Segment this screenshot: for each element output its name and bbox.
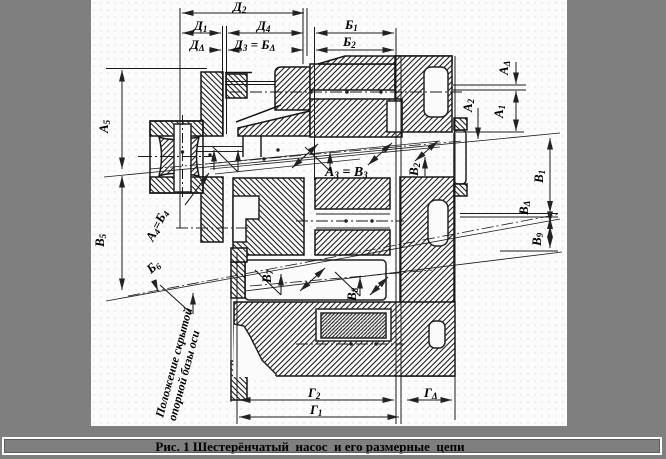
dot c [379, 90, 382, 93]
cap axis [138, 156, 213, 158]
gear hub in cavity [321, 313, 386, 338]
dot f [349, 342, 352, 345]
left edge bolt section upper [231, 248, 247, 262]
left edge bolt section lower [231, 361, 247, 400]
ext line x303 [302, 8, 304, 64]
oblique axis dashdot upper [150, 141, 462, 169]
ext line A1 bottom [456, 131, 524, 133]
dim Г2 [239, 399, 394, 401]
leader В2 [424, 157, 426, 176]
leader zigzag band1 a [212, 146, 238, 172]
shaft journal line b [191, 151, 243, 153]
svg-text:Г1: Г1 [309, 402, 322, 418]
svg-text:Положение скрытой опорной ба: Положение скрытой опорной базы оси [152, 303, 208, 423]
dot e [370, 219, 373, 222]
svg-text:Д1: Д1 [193, 18, 207, 34]
svg-text:Б1: Б1 [344, 17, 358, 33]
gear hub mass [275, 67, 310, 110]
band under upper shaft [310, 99, 402, 137]
gear bore line b [316, 227, 390, 229]
body ramp upper edge [236, 105, 281, 122]
leader А4 vertical [213, 150, 215, 170]
dim Б1 [316, 32, 394, 34]
svg-text:Д3 = БΔ: Д3 = БΔ [233, 37, 275, 53]
dim ДΔ right leader [228, 49, 240, 51]
lower gear upper half [315, 178, 390, 209]
shaft end cap [454, 130, 466, 184]
spherical washer [159, 137, 199, 176]
left bearing cap outline [150, 121, 203, 193]
svg-text:В2: В2 [406, 162, 422, 177]
stepped notch in cover [233, 196, 259, 242]
dim Г1 [239, 416, 399, 418]
dot h [181, 150, 184, 153]
bottom housing block [234, 302, 455, 376]
chain line band c [215, 159, 360, 174]
dim А1 [515, 91, 517, 131]
ext line gear face [314, 27, 316, 180]
body ramp hatch wedge [238, 111, 310, 136]
svg-text:В9: В9 [529, 232, 545, 247]
dim В5 [121, 176, 123, 290]
leader А4 diagonal [185, 173, 209, 205]
hub face edge right [260, 136, 262, 157]
chain line band b [210, 147, 440, 169]
svg-text:Д4: Д4 [256, 18, 271, 34]
svg-text:В5: В5 [92, 233, 108, 248]
ext line gear face right a [460, 213, 558, 215]
dim А5 [121, 70, 123, 169]
leader zigzag band1 e [415, 141, 438, 161]
dim АΔ leader [515, 62, 517, 84]
bearing plate [245, 260, 386, 300]
top hatched band [310, 64, 395, 90]
svg-text:В1: В1 [531, 170, 547, 184]
dim Б2 [316, 49, 394, 51]
dot d [344, 219, 347, 222]
ext line B9 bottom [500, 250, 558, 252]
dim Д4 [228, 32, 303, 34]
svg-text:А4=Б4: А4=Б4 [142, 206, 172, 244]
journal line a [225, 81, 275, 83]
dim ВΔ [549, 218, 551, 224]
svg-text:ДΔ: ДΔ [189, 37, 205, 53]
housing right edge [454, 56, 456, 420]
left bearing cap top band [150, 121, 203, 136]
ext line gear face right b [460, 216, 558, 218]
ext line x396 long [395, 28, 397, 424]
svg-text:А5: А5 [96, 119, 112, 134]
right wall upper block [395, 56, 452, 132]
svg-text:АΔ: АΔ [496, 61, 512, 76]
dot i [262, 157, 265, 160]
right wall lower block [400, 177, 454, 376]
lower gear lower half [315, 230, 390, 255]
leader zigzag band1 b [292, 144, 318, 168]
white drawing panel [91, 0, 567, 426]
bolt centerline [182, 115, 184, 200]
svg-text:А3 = В3: А3 = В3 [324, 165, 368, 180]
dim В9 [549, 226, 551, 248]
bolt shank slot [174, 124, 191, 192]
slot in band [387, 101, 402, 132]
ext line gap right [226, 26, 228, 134]
dim Д1 [182, 32, 221, 34]
dim А2 leader [477, 108, 479, 139]
leader Б6 arrow [154, 281, 158, 291]
dot a [309, 90, 312, 93]
ext line gap left [222, 26, 224, 134]
housing cavity [316, 309, 391, 341]
lower-left gear block [233, 178, 304, 255]
right wall bolt pocket [424, 67, 448, 117]
ext line x180 [179, 8, 181, 228]
oblique axis dashdot lower [250, 270, 432, 286]
svg-text:ГΔ: ГΔ [423, 385, 438, 401]
dot k [208, 153, 211, 156]
left housing edge [230, 248, 232, 402]
leader zigzag band1 c [305, 147, 330, 171]
housing bottom-left contour [233, 324, 276, 377]
journal line b [225, 84, 275, 86]
caption bar [2, 437, 662, 455]
leader zigzag band2 c [335, 272, 360, 296]
leader zigzag band2 d [370, 277, 388, 295]
dim Д2 [182, 12, 304, 14]
svg-text:Д2: Д2 [232, 0, 247, 15]
leader zigzag band2 b [300, 268, 325, 291]
lower shaft centerline [296, 220, 404, 222]
svg-text:А1: А1 [491, 105, 507, 119]
oblique base line upper [104, 133, 560, 177]
shaft journal line a [191, 146, 243, 148]
svg-text:Г2: Г2 [307, 385, 321, 401]
dim ДΔ left leader [209, 49, 221, 51]
leader zigzag band2 a [255, 270, 281, 295]
svg-text:Б2: Б2 [342, 34, 356, 50]
svg-text:ВΔ: ВΔ [516, 201, 532, 216]
housing right pocket [429, 321, 445, 348]
dim Д3 right leader [294, 49, 303, 51]
dim В1 [549, 138, 551, 213]
dot j [276, 148, 279, 151]
ext line x401 [400, 56, 402, 424]
ext line shaft pair a [453, 84, 526, 86]
upper shaft centerline [230, 91, 462, 93]
ext line A5 top [106, 68, 207, 70]
dim ГΔ [407, 399, 452, 401]
cap flange bottom [454, 184, 467, 196]
cap flange top [454, 118, 467, 130]
oblique base line lower [245, 252, 562, 291]
leader Б6 zigzag [160, 285, 193, 314]
ext line x307 [306, 8, 308, 56]
cover top edge [225, 72, 252, 74]
leader zigzag band1 d [368, 143, 392, 165]
gear bore line a [316, 213, 390, 215]
bottom hub centerline [296, 343, 404, 345]
dot g [374, 342, 377, 345]
svg-text:А2: А2 [460, 98, 476, 113]
left bearing cap bottom band [150, 177, 203, 193]
cover plate lower section [201, 177, 223, 242]
ext line shaft pair b [453, 89, 526, 91]
right wall mid pocket [428, 200, 448, 246]
А4 axis dashdot [176, 227, 248, 229]
oblique base line middle [106, 219, 560, 301]
cover top block [226, 74, 247, 98]
plate stub [231, 262, 245, 298]
ext line x237 [236, 252, 238, 424]
top raised rim [318, 56, 452, 64]
housing contour edge [234, 324, 276, 376]
svg-text:Б6: Б6 [143, 256, 164, 277]
dot b [345, 90, 348, 93]
chain line band a [206, 141, 440, 164]
oblique axis dashdot middle [128, 214, 560, 296]
hub face edge left [242, 136, 244, 157]
cover plate upper section [201, 72, 223, 136]
